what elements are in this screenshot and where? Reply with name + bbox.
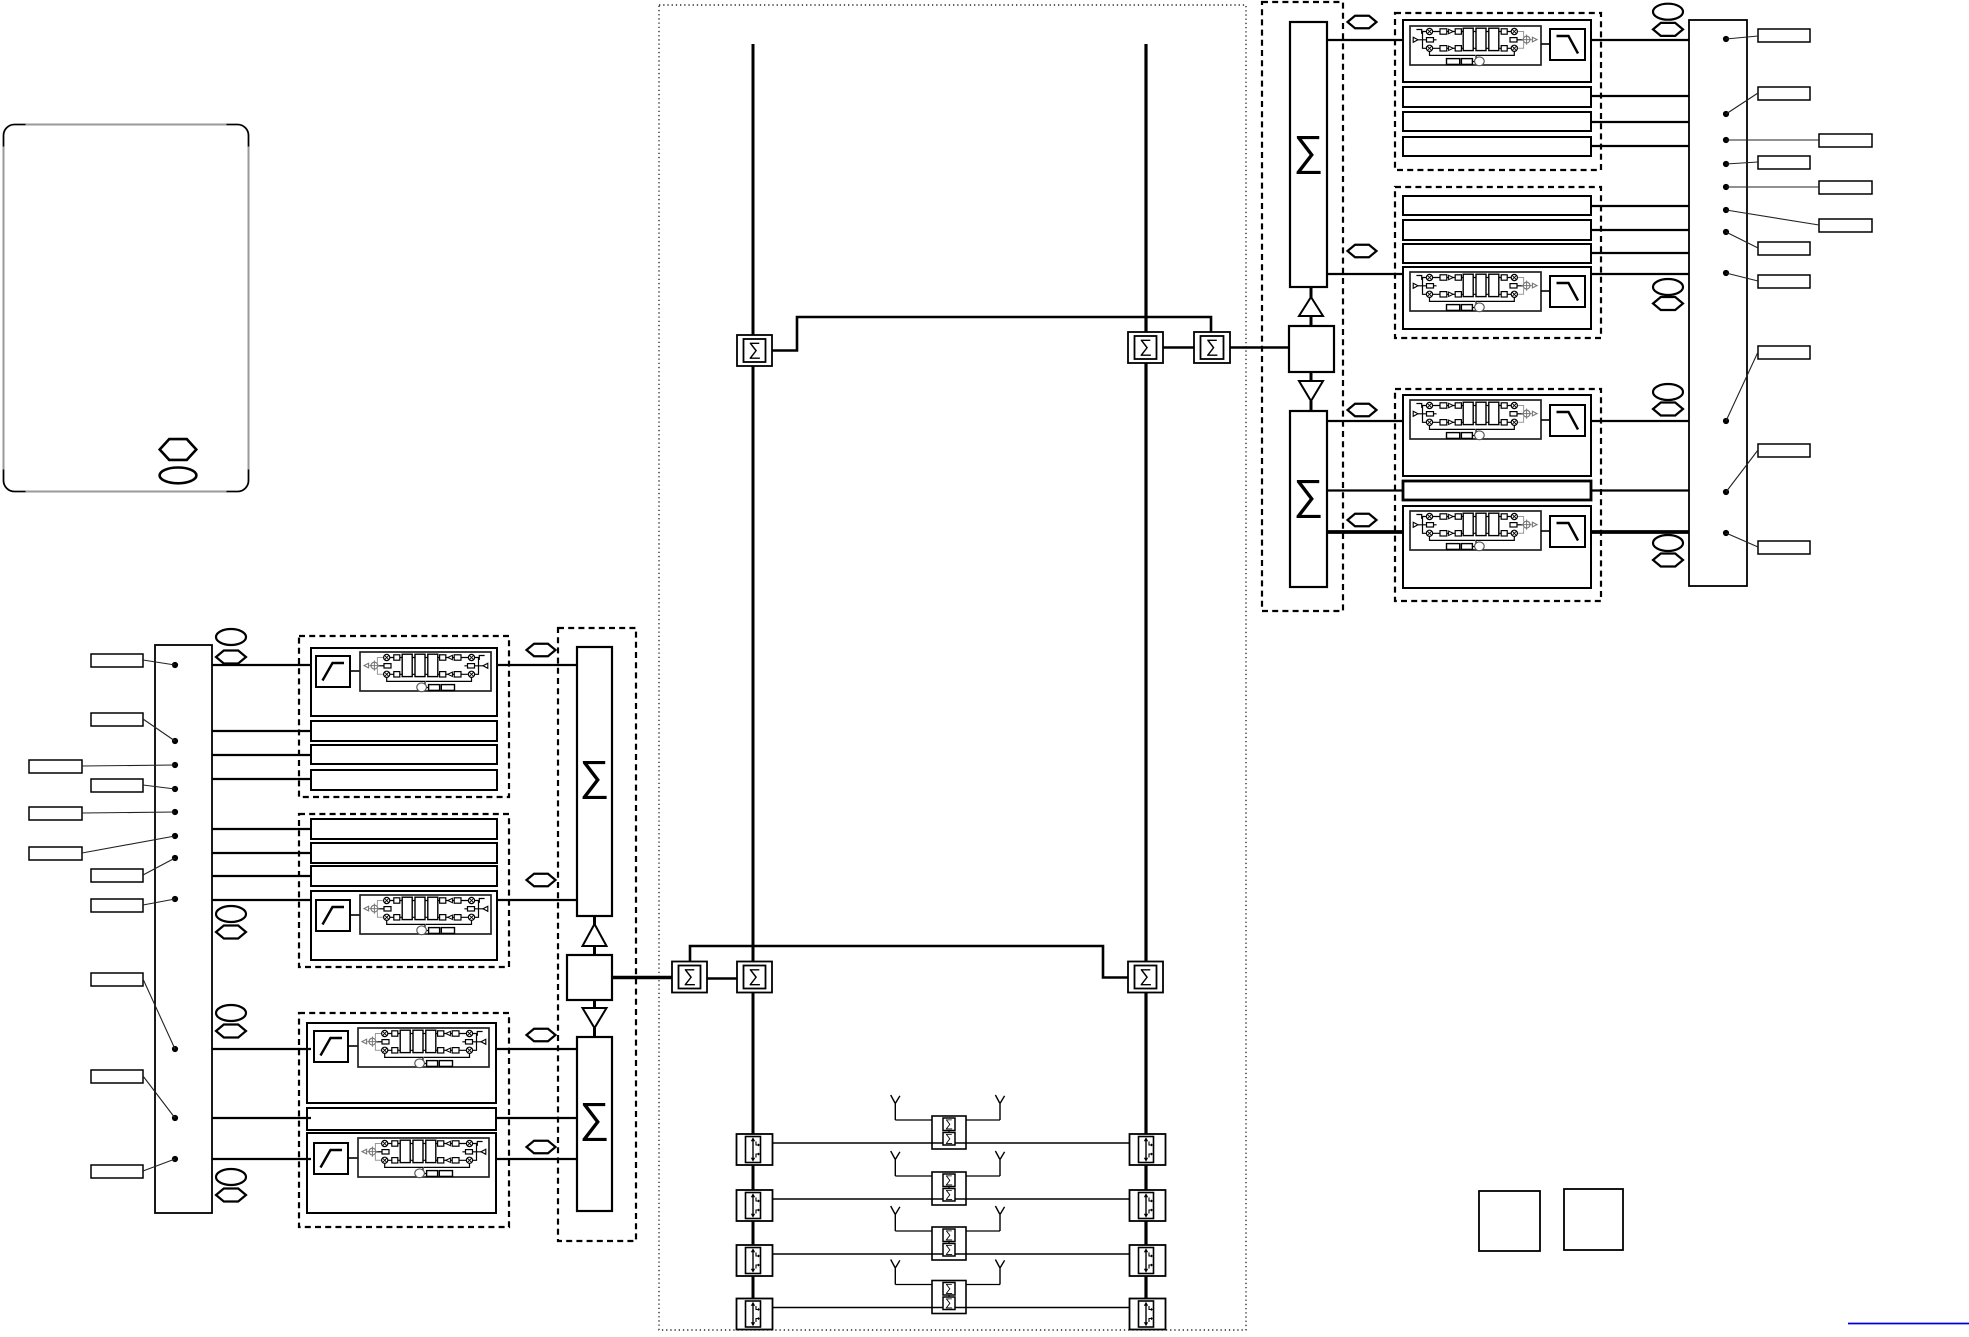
wire dsp to icon R4 xyxy=(1541,530,1550,532)
antenna feed right R3 xyxy=(966,1230,1000,1232)
label box R-B2 xyxy=(1819,181,1872,194)
legend connector ellipse xyxy=(160,468,197,484)
gain hexagon BR-1 xyxy=(1653,23,1683,36)
amp triangle up SR xyxy=(1299,297,1323,316)
dsp chain R3 xyxy=(1410,400,1541,440)
wire slot R2b to bus BR xyxy=(1591,229,1689,231)
leader line R5 xyxy=(1726,186,1819,188)
wire SR1 to amp xyxy=(1310,287,1313,298)
gain hexagon BL-4 xyxy=(216,1189,246,1202)
gain hexagon SR-4 xyxy=(1348,514,1377,527)
antenna feed left R3 xyxy=(895,1230,932,1232)
label box L-A1 xyxy=(91,654,143,667)
wire filter L2 to sum SL1 xyxy=(497,899,577,901)
wire icon to dsp L3 xyxy=(348,1045,359,1047)
label box R-B3 xyxy=(1819,219,1872,232)
filter slot L3 box xyxy=(307,1023,496,1103)
output block R3 frame xyxy=(1395,389,1601,601)
wire dsp to icon R1 xyxy=(1541,43,1550,45)
insert block right R4 xyxy=(1130,1299,1166,1330)
label box L-A2 xyxy=(91,713,143,726)
connector ellipse BL-1 xyxy=(216,629,246,645)
mix column frame SL xyxy=(558,628,636,1241)
hyperlink rule xyxy=(1848,1323,1969,1325)
svg-text:∑: ∑ xyxy=(580,752,610,799)
label box R-A7 xyxy=(1758,444,1810,457)
lpf icon R1 xyxy=(1550,29,1585,60)
spare slot R2a xyxy=(1403,196,1591,215)
wire SR2 to filter R3 xyxy=(1327,420,1403,422)
return row wire R4 xyxy=(753,1307,1146,1309)
antenna feed left R4 xyxy=(895,1284,932,1286)
mix column frame SR xyxy=(1262,2,1343,611)
svg-text:∑: ∑ xyxy=(748,339,761,359)
node tap BR-3 xyxy=(1723,137,1729,143)
leader line L7 xyxy=(143,858,175,875)
leader line R1 xyxy=(1726,36,1758,39)
summer SR1 xyxy=(1290,22,1327,287)
leader line R10 xyxy=(1726,450,1758,492)
wire MC to matrix R xyxy=(1230,346,1289,349)
wire SR1 to filter R1 xyxy=(1327,39,1403,41)
filter slot R3 box xyxy=(1403,395,1591,476)
leader line L2 xyxy=(143,719,175,741)
wire matrix to amp down R xyxy=(1310,372,1313,382)
hpf icon L2 xyxy=(316,900,350,931)
footnote box 2 xyxy=(1564,1189,1623,1250)
connector ellipse BR-4 xyxy=(1653,535,1683,551)
output block L1 frame xyxy=(299,636,509,797)
talkback antenna right R4 xyxy=(995,1260,1004,1285)
wire icon to dsp L1 xyxy=(350,670,360,672)
dual summer block R3 xyxy=(932,1227,966,1260)
wire delay R to bus BR xyxy=(1591,489,1689,491)
node tap BR-11 xyxy=(1723,530,1729,536)
wire amp to SR2 xyxy=(1310,401,1313,411)
svg-text:∑: ∑ xyxy=(1139,965,1152,985)
output bus bar BR xyxy=(1689,20,1747,586)
connector ellipse BL-3 xyxy=(216,1005,246,1021)
dsp chain L4 (mirrored) xyxy=(358,1138,489,1178)
talkback antenna right R2 xyxy=(995,1151,1004,1176)
dsp chain R4 xyxy=(1410,511,1541,551)
wire input bus to slot L4 xyxy=(212,778,311,780)
antenna feed left R2 xyxy=(895,1175,932,1177)
hpf icon L4 xyxy=(314,1143,348,1174)
lpf icon R2 xyxy=(1550,276,1585,307)
output block R2 frame xyxy=(1395,187,1601,338)
leader line R11 xyxy=(1726,533,1758,547)
label box L-B3 xyxy=(29,847,82,860)
leader line L11 xyxy=(143,1159,175,1171)
leader line L4 xyxy=(143,785,175,789)
filter slot L1 box xyxy=(311,648,497,716)
leader line R6 xyxy=(1726,210,1819,225)
leader line L9 xyxy=(143,979,175,1049)
gain hexagon SR-3 xyxy=(1348,404,1377,417)
wire MB to MC xyxy=(1163,346,1194,349)
gain hexagon BL-3 xyxy=(216,1025,246,1038)
return row wire R3 xyxy=(753,1253,1146,1255)
wire input bus to slot L5 xyxy=(212,828,311,830)
label box R-A3 xyxy=(1758,156,1810,169)
wire filter R4 to bus BR (main) xyxy=(1591,530,1689,534)
summer SL1 xyxy=(577,647,612,916)
amp triangle down SL xyxy=(583,1008,607,1028)
talkback antenna right R3 xyxy=(995,1206,1004,1231)
gain hexagon BR-2 xyxy=(1653,297,1683,310)
wire crossfeed bottom xyxy=(690,946,1128,978)
label box L-B1 xyxy=(29,760,82,773)
gain hexagon BR-3 xyxy=(1653,403,1683,416)
insert block left R2 xyxy=(737,1190,773,1221)
label box L-A6 xyxy=(91,973,143,986)
label box L-A3 xyxy=(91,779,143,792)
lpf icon R4 xyxy=(1550,516,1585,547)
hpf icon L3 xyxy=(314,1031,348,1062)
svg-text:∑: ∑ xyxy=(1139,336,1152,356)
talkback antenna left R1 xyxy=(891,1095,900,1120)
node tap BL-7 xyxy=(172,855,178,861)
spare slot R1a xyxy=(1403,87,1591,107)
summer MC xyxy=(1194,332,1230,363)
gain hexagon SL-1 xyxy=(527,644,556,657)
summer MB on bus MR xyxy=(1128,332,1163,363)
talkback antenna right R1 xyxy=(995,1095,1004,1120)
wire SL1 to amp xyxy=(593,916,596,925)
wire matrix to amp down L xyxy=(593,1000,596,1009)
dsp chain L3 (mirrored) xyxy=(358,1028,489,1068)
dual summer block R4 xyxy=(932,1281,966,1314)
dual summer block R2 xyxy=(932,1172,966,1205)
wire dsp to icon R3 xyxy=(1541,419,1550,421)
gain hexagon SL-2 xyxy=(527,874,556,887)
svg-text:∑: ∑ xyxy=(748,965,761,985)
gain hexagon BL-2 xyxy=(216,926,246,939)
wire input bus to slot L9 xyxy=(212,1048,311,1050)
gain hexagon BL-1 xyxy=(216,651,246,664)
connector ellipse BR-1 xyxy=(1653,4,1683,20)
spare slot R1b xyxy=(1403,112,1591,131)
amp triangle up SL xyxy=(583,924,607,946)
antenna feed right R2 xyxy=(966,1175,1000,1177)
label box L-A7 xyxy=(91,1070,143,1083)
dsp chain L2 (mirrored) xyxy=(360,895,491,935)
wire slot R2c to bus BR xyxy=(1591,252,1689,254)
label box R-A6 xyxy=(1758,346,1810,359)
node tap BR-6 xyxy=(1723,207,1729,213)
wire SR1 to filter R2 xyxy=(1327,273,1403,275)
node tap BL-1 xyxy=(172,662,178,668)
wire MD to ME xyxy=(707,977,737,980)
spare slot R1c xyxy=(1403,137,1591,156)
label box L-A5 xyxy=(91,899,143,912)
wire input bus to slot L2 xyxy=(212,730,311,732)
node tap BR-1 xyxy=(1723,36,1729,42)
node tap BL-3 xyxy=(172,762,178,768)
lpf icon R3 xyxy=(1550,405,1585,436)
wire amp to matrix L xyxy=(593,946,596,955)
summer MD xyxy=(672,962,707,993)
insert block left R4 xyxy=(737,1299,773,1330)
leader line R8 xyxy=(1726,273,1758,281)
wire filter L4 to sum SL2 xyxy=(497,1158,577,1160)
legend gain hexagon xyxy=(160,439,197,460)
wire SR2 to filter R4 (main) xyxy=(1327,530,1403,534)
leader line R4 xyxy=(1726,162,1758,164)
spare slot L1b xyxy=(311,745,497,764)
filter slot L2 box xyxy=(311,891,497,960)
node tap BL-9 xyxy=(172,1046,178,1052)
summer MA on bus ML xyxy=(737,335,772,366)
wire icon to dsp L4 xyxy=(348,1157,359,1159)
leader line L6 xyxy=(82,836,175,853)
spare slot L1a xyxy=(311,721,497,741)
spare slot L1c xyxy=(311,770,497,790)
leader line L10 xyxy=(143,1076,175,1118)
node tap BR-7 xyxy=(1723,229,1729,235)
spare slot L2a xyxy=(311,819,497,839)
dsp chain R1 xyxy=(1410,26,1541,66)
summer SR2 xyxy=(1290,411,1327,587)
matrix block L xyxy=(567,955,612,1000)
insert block right R3 xyxy=(1130,1245,1166,1276)
label box R-B1 xyxy=(1819,134,1872,147)
wire input bus to slot L6 xyxy=(212,852,311,854)
wire slot R1a to bus BR xyxy=(1591,95,1689,97)
footnote box 1 xyxy=(1479,1191,1540,1251)
node tap BL-4 xyxy=(172,786,178,792)
wire input bus to slot L7 xyxy=(212,875,311,877)
label box R-A1 xyxy=(1758,29,1810,42)
antenna feed left R1 xyxy=(895,1119,932,1121)
output block L3 frame xyxy=(299,1013,509,1227)
dsp chain R2 xyxy=(1410,272,1541,312)
wire input bus to slot L1 xyxy=(212,664,311,666)
gain hexagon SL-4 xyxy=(527,1141,556,1154)
filter slot L4 box xyxy=(307,1133,496,1213)
wire slot R1c to bus BR xyxy=(1591,145,1689,147)
filter slot R4 box xyxy=(1403,506,1591,588)
label box L-A4 xyxy=(91,869,143,882)
label box R-A4 xyxy=(1758,242,1810,255)
svg-text:∑: ∑ xyxy=(1294,471,1324,518)
output block R1 frame xyxy=(1395,13,1601,170)
hpf icon L1 xyxy=(316,656,350,687)
amp triangle down SR xyxy=(1299,381,1323,401)
svg-text:∑: ∑ xyxy=(1294,127,1324,174)
node tap BR-2 xyxy=(1723,111,1729,117)
summer MF on bus MR xyxy=(1128,962,1163,993)
summer SL2 xyxy=(577,1037,612,1211)
node tap BL-5 xyxy=(172,809,178,815)
svg-text:∑: ∑ xyxy=(580,1094,610,1141)
wire dsp to icon R2 xyxy=(1541,290,1550,292)
filter slot R1 box xyxy=(1403,20,1591,82)
wire icon to dsp L2 xyxy=(350,914,360,916)
filter slot R2 box xyxy=(1403,267,1591,329)
gain hexagon SR-2 xyxy=(1348,245,1377,258)
mix bus left ML xyxy=(752,44,755,1328)
node tap BL-2 xyxy=(172,738,178,744)
leader line L8 xyxy=(143,899,175,905)
legend card xyxy=(4,125,249,492)
node tap BL-10 xyxy=(172,1115,178,1121)
leader line L5 xyxy=(82,812,175,813)
label box R-A2 xyxy=(1758,87,1810,100)
gain hexagon BR-4 xyxy=(1653,554,1683,567)
leader line L3 xyxy=(82,765,175,766)
node tap BR-8 xyxy=(1723,270,1729,276)
dsp chain L1 (mirrored) xyxy=(360,652,491,692)
leader line R2 xyxy=(1726,93,1758,114)
wire filter R3 to bus BR xyxy=(1591,420,1689,422)
node tap BR-10 xyxy=(1723,489,1729,495)
leader line R9 xyxy=(1726,352,1758,421)
gain hexagon SL-3 xyxy=(527,1029,556,1042)
delay slot L mid xyxy=(307,1108,496,1130)
node tap BL-11 xyxy=(172,1156,178,1162)
summer ME on bus ML xyxy=(737,962,772,993)
node tap BR-4 xyxy=(1723,161,1729,167)
insert block right R1 xyxy=(1130,1134,1166,1165)
antenna feed right R1 xyxy=(966,1119,1000,1121)
spare slot R2c xyxy=(1403,244,1591,263)
mix bus area frame xyxy=(659,5,1246,1330)
wire amp to SL2 xyxy=(593,1028,596,1037)
wire input bus to slot L8 xyxy=(212,899,311,901)
node tap BR-9 xyxy=(1723,418,1729,424)
wire slot R2a to bus BR xyxy=(1591,205,1689,207)
leader line R7 xyxy=(1726,232,1758,248)
talkback antenna left R3 xyxy=(891,1206,900,1231)
mix bus right MR xyxy=(1144,44,1147,1328)
connector ellipse BR-2 xyxy=(1653,279,1683,295)
talkback antenna left R2 xyxy=(891,1151,900,1176)
wire filter R1 to bus BR xyxy=(1591,39,1689,41)
delay slot R mid xyxy=(1403,481,1591,500)
wire amp to matrix R xyxy=(1310,316,1313,326)
wire input bus to slot L11 xyxy=(212,1158,311,1160)
node tap BL-6 xyxy=(172,833,178,839)
leader line L1 xyxy=(143,660,175,665)
connector ellipse BR-3 xyxy=(1653,384,1683,400)
label box R-A5 xyxy=(1758,275,1810,288)
label box L-A8 xyxy=(91,1165,143,1178)
wire sum A to crossfeed top xyxy=(772,317,1211,351)
connector ellipse BL-2 xyxy=(216,906,246,922)
label box R-A8 xyxy=(1758,541,1810,554)
spare slot L2c xyxy=(311,866,497,886)
connector ellipse BL-4 xyxy=(216,1169,246,1185)
gain hexagon SR-1 xyxy=(1348,16,1377,29)
dual summer block R1 xyxy=(932,1116,966,1149)
insert block left R1 xyxy=(737,1134,773,1165)
wire SR2 to delay R xyxy=(1327,489,1403,491)
antenna feed right R4 xyxy=(966,1284,1000,1286)
label box L-B2 xyxy=(29,807,82,820)
node tap BR-5 xyxy=(1723,184,1729,190)
input bus bar BL xyxy=(155,645,212,1213)
wire filter L1 to sum SL1 xyxy=(497,664,577,666)
return row wire R2 xyxy=(753,1198,1146,1200)
spare slot L2b xyxy=(311,843,497,863)
leader line R3 xyxy=(1726,139,1819,141)
matrix block R xyxy=(1289,326,1334,372)
wire slot L10 to sum SL2 xyxy=(497,1117,577,1119)
svg-text:∑: ∑ xyxy=(683,965,696,985)
talkback antenna left R4 xyxy=(891,1260,900,1285)
wire input bus to slot L3 xyxy=(212,754,311,756)
spare slot R2b xyxy=(1403,220,1591,240)
insert block left R3 xyxy=(737,1245,773,1276)
wire matrix L to mix bus xyxy=(612,976,672,980)
node tap BL-8 xyxy=(172,896,178,902)
insert block right R2 xyxy=(1130,1190,1166,1221)
return row wire R1 xyxy=(753,1142,1146,1144)
wire filter R2 to bus BR xyxy=(1591,273,1689,275)
wire filter L3 to sum SL2 xyxy=(497,1048,577,1050)
wire input bus to slot L10 xyxy=(212,1117,311,1119)
output block L2 frame xyxy=(299,814,509,967)
wire slot R1b to bus BR xyxy=(1591,121,1689,123)
svg-text:∑: ∑ xyxy=(1206,336,1219,356)
